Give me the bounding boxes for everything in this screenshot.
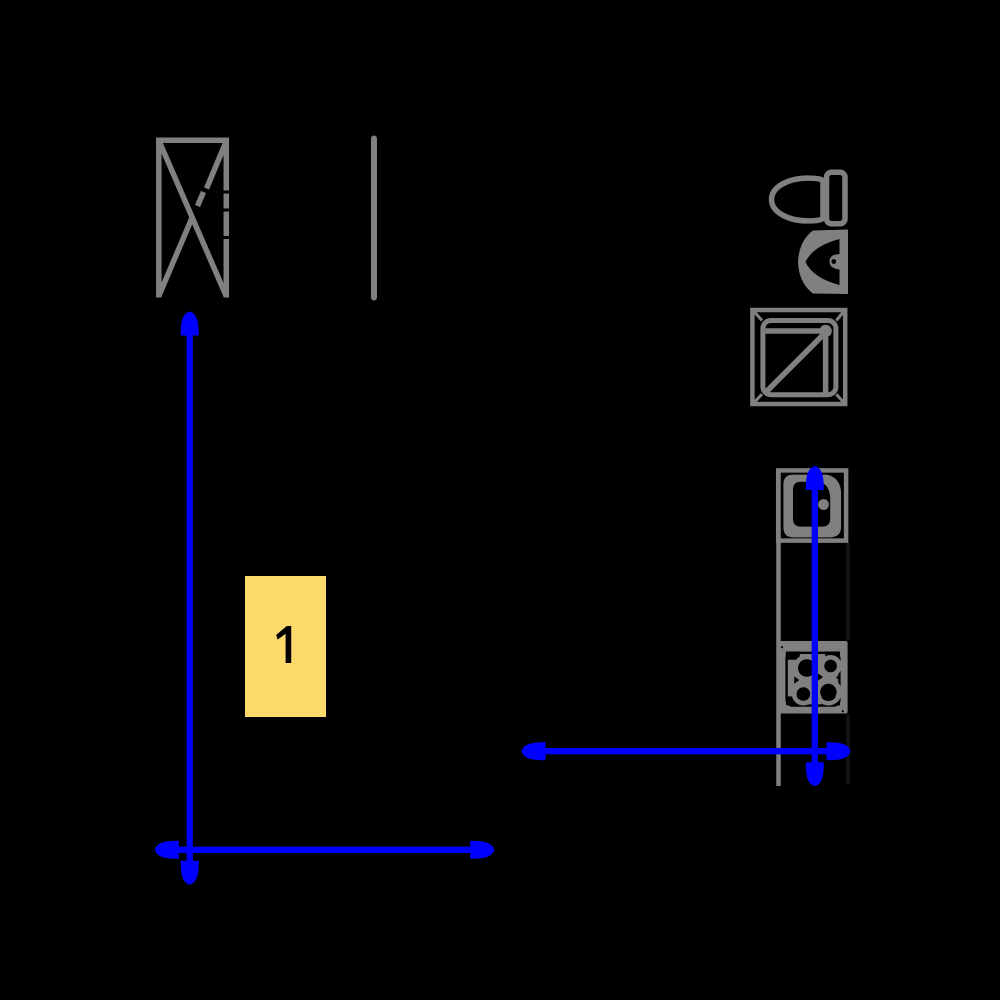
dimension arrow horizontal right: head right [827,742,851,760]
shower drain circle [819,325,831,337]
dimension arrow horizontal bottom: line [172,847,477,853]
toilet bowl [772,178,824,221]
shower corner tick TL [754,312,762,321]
left edge [156,138,162,298]
stove frame corner block BR [822,697,840,706]
dimension arrow vertical kitchen: line [812,483,818,770]
kitchen sink outer square [778,470,846,540]
stove knob marker right [836,675,840,681]
washbasin body [798,230,848,295]
shower corner tick BL [754,394,762,402]
stove corner screw TL [781,646,783,648]
burner ring BR [817,681,839,703]
right edge segment 1 [224,138,230,191]
kitchen wall line [776,469,781,787]
burner ring TL [796,657,819,680]
shower inner rounded square [763,321,836,395]
stove corner screw BR [842,710,844,712]
stove frame corner block BL [786,696,798,705]
shower rail horizontal [765,328,820,334]
stove knob marker left [794,677,799,684]
dimension arrow vertical kitchen: head down [806,762,824,786]
right edge segment 3 [224,212,230,237]
right edge segment 2 [224,194,230,209]
washbasin bowl [806,239,840,285]
stove knob marker mid [818,674,823,681]
kitchen sink basin rim [783,475,841,538]
burner top-left [798,659,816,677]
dimension arrow vertical kitchen: head up [806,466,824,490]
room area 1 (yellow) [245,576,326,717]
room label 1 [276,626,291,663]
burner bottom-right [820,684,836,700]
kitchen counter dark edge upper [847,543,850,640]
burner ring TR [822,657,840,675]
burner ring BL [794,685,813,704]
diagonal slash lower solid [159,218,192,295]
dimension arrow horizontal bottom: head left [155,841,179,859]
diagonal slash short dash [198,192,204,206]
diagonal slash upper solid [207,142,227,189]
stove body [780,641,848,714]
shower corner tick BR [836,394,843,402]
toilet tank [827,172,846,224]
wall segment top-middle [371,139,377,298]
top edge [156,137,229,143]
kitchen sink drain dot [818,499,829,510]
kitchen counter dark edge lower [847,714,850,785]
stove frame corner block TL [786,652,800,660]
diagonal backslash [159,140,226,296]
dimension arrow vertical left: head up [181,312,199,336]
shower diagonal [766,336,823,393]
washbasin drain dot [831,259,836,264]
dimension arrow horizontal right: head left [522,742,546,760]
shower rail vertical [823,336,829,393]
right edge segment 4 [224,239,230,298]
dimension arrow horizontal bottom: head right [470,841,494,859]
window/shaft symbol top-left [156,138,229,298]
stove frame [787,653,840,706]
shower outer square [752,310,845,404]
dimension arrow vertical left: head down [181,861,199,885]
stove frame corner block TR [825,652,840,660]
shower tray [752,310,845,404]
burner top-right [824,660,837,673]
shower corner tick TR [836,312,843,321]
dimension arrow vertical left: line [187,330,193,866]
dimension arrow horizontal right: line [538,748,834,754]
burner bottom-left [797,687,811,701]
